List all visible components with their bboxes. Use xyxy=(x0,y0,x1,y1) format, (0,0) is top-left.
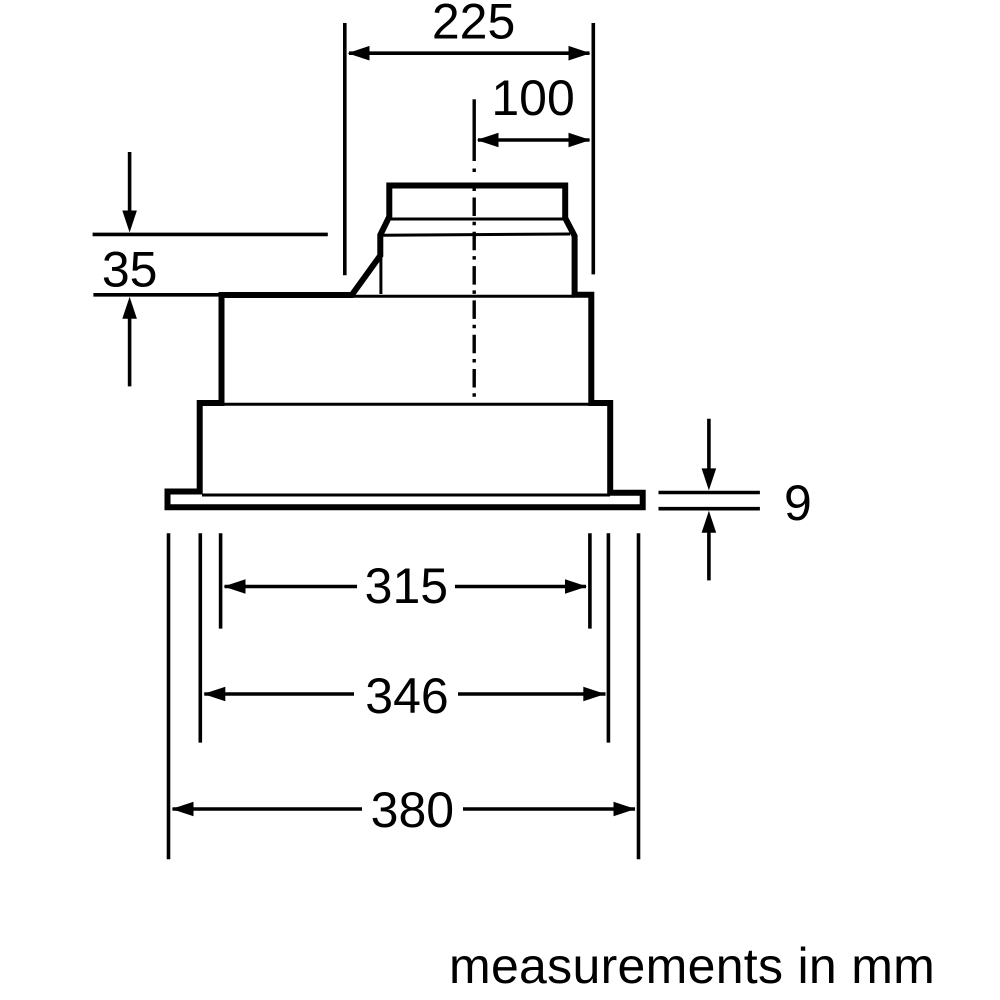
dimension 315: left arrowhead xyxy=(224,579,246,594)
dimension 9: up arrowhead xyxy=(702,511,717,533)
duct collar ring line lower (thin) xyxy=(383,234,571,235)
dimension 9: down arrow line xyxy=(707,419,711,483)
svg-text:100: 100 xyxy=(491,70,574,126)
dimension 380: dimension line left segment xyxy=(173,807,363,811)
svg-text:346: 346 xyxy=(365,668,448,724)
dimension 380: dimension line right segment xyxy=(463,807,635,811)
svg-text:measurements in mm: measurements in mm xyxy=(449,938,935,994)
dimension 225: left arrowhead xyxy=(348,46,370,61)
dimension 315: left extension line xyxy=(219,533,223,628)
dimension 35: lower reference line xyxy=(93,293,263,297)
dimension 225: right arrowhead xyxy=(569,46,591,61)
dimension 100: dimension line xyxy=(478,138,590,142)
dimension 9: upper reference line xyxy=(659,491,760,495)
dimension 315: right arrowhead xyxy=(565,579,587,594)
dimension 346: left extension line xyxy=(199,533,203,742)
dimension 9: up arrow line xyxy=(707,518,711,580)
dimension 380: left extension line xyxy=(167,533,171,859)
dimension 35: up arrow line xyxy=(128,304,132,386)
dimension 315: dimension line left segment xyxy=(225,585,358,589)
dimension 346: right extension line xyxy=(607,533,611,742)
dimension 225: left extension line xyxy=(343,23,347,275)
dimension 9: down arrowhead xyxy=(702,468,717,490)
dimension 225: dimension line xyxy=(349,51,590,55)
duct hidden left edge (thin vertical) xyxy=(379,257,382,295)
dimension 346: right arrowhead xyxy=(583,687,605,702)
dimension 35: down arrow line xyxy=(128,152,132,225)
dimension 346: dimension line left segment xyxy=(204,692,354,696)
lower step top edge (thin) xyxy=(221,403,589,406)
dimension 225: right extension line xyxy=(591,23,595,274)
center line (dash-dot) xyxy=(473,99,476,161)
dimension 380: left arrowhead xyxy=(172,802,194,817)
base plate top edge (thin) xyxy=(202,494,610,497)
svg-text:35: 35 xyxy=(102,242,158,298)
dimension 380: right arrowhead xyxy=(614,802,636,817)
dimension 380: right extension line xyxy=(637,533,641,859)
dimension 100: right arrowhead xyxy=(569,133,591,148)
dimension 346: left arrowhead xyxy=(203,687,225,702)
dimension 9: lower reference line xyxy=(659,507,760,511)
body top edge (thin) xyxy=(352,295,574,298)
duct collar ring line upper (thin) xyxy=(391,218,563,221)
hood outline (thick profile) xyxy=(168,186,643,508)
dimension 315: right extension line xyxy=(588,533,592,628)
svg-text:380: 380 xyxy=(371,782,454,838)
svg-text:225: 225 xyxy=(432,0,515,50)
dimension 35: upper reference line xyxy=(93,233,328,237)
dimension 346: dimension line right segment xyxy=(458,692,606,696)
svg-text:9: 9 xyxy=(784,475,812,531)
dimension 315: dimension line right segment xyxy=(455,585,586,589)
dimension 35: up arrowhead xyxy=(122,297,137,319)
svg-text:315: 315 xyxy=(365,558,448,614)
dimension 35: down arrowhead xyxy=(122,211,137,233)
dimension 100: left arrowhead xyxy=(477,133,499,148)
